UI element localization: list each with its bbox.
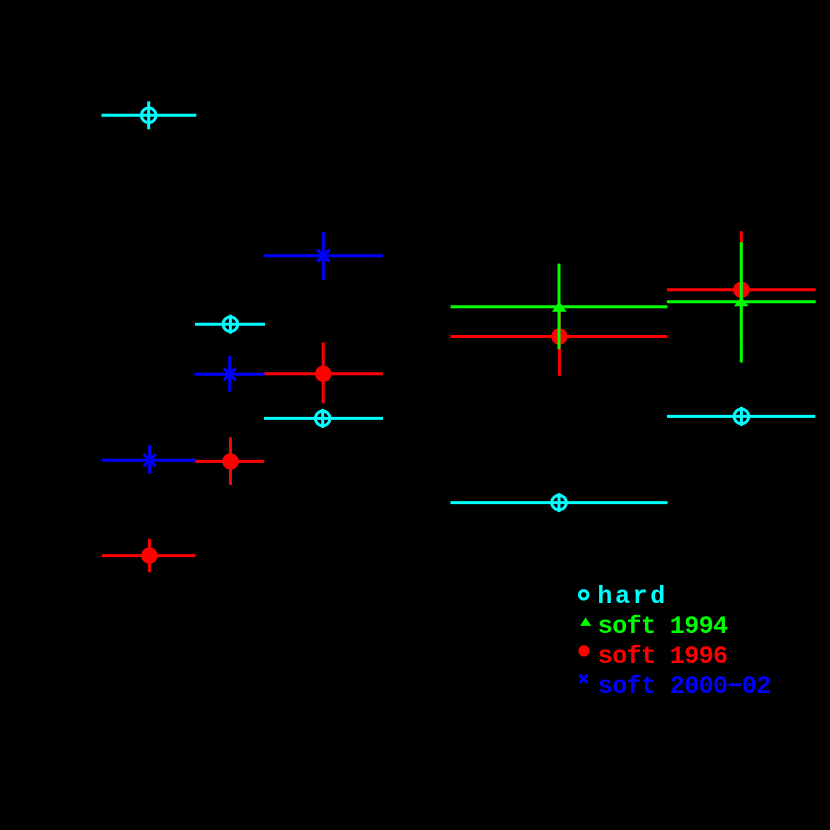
svg-text:soft 1996: soft 1996 xyxy=(598,642,728,671)
svg-text:hard: hard xyxy=(597,582,667,611)
svg-text:soft 2000−02: soft 2000−02 xyxy=(598,672,771,701)
svg-text:soft 1994: soft 1994 xyxy=(598,612,728,641)
